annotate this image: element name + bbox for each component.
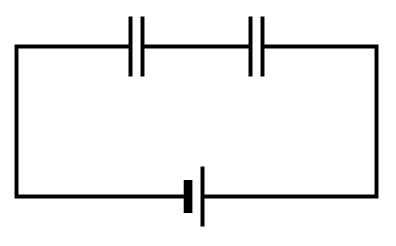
battery positive terminal (long thin bar) (201, 167, 205, 227)
wire: top middle segment between capacitor C1 and capacitor C2 (143, 45, 251, 49)
battery negative terminal (short thick bar) (184, 180, 193, 213)
capacitor C1 right plate (141, 17, 145, 77)
capacitor C1 left plate (129, 17, 133, 77)
capacitor C2 left plate (249, 17, 253, 77)
capacitor C2 right plate (261, 17, 265, 77)
wire: top-right segment + right side + bottom-right segment of loop (203, 47, 377, 197)
wire: top-left segment + left side + bottom-left segment of loop (17, 47, 189, 197)
